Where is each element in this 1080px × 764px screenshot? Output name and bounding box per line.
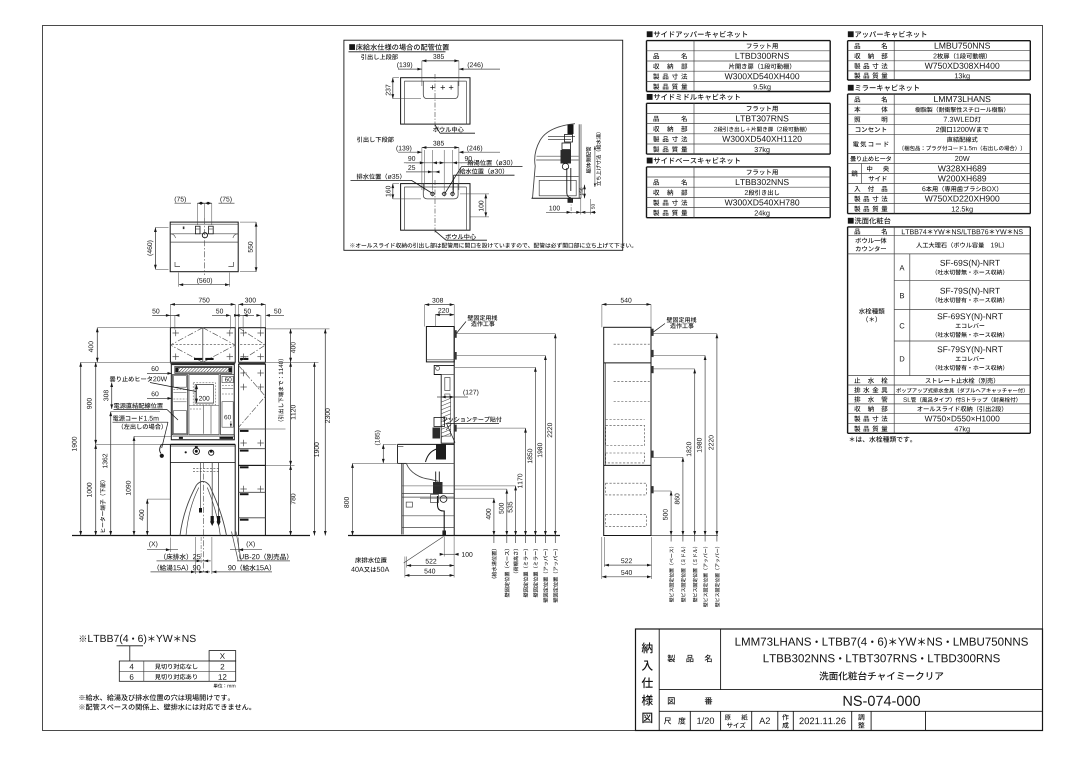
upper plan: counter outline	[401, 78, 470, 124]
section dim: 800 cabinet height	[352, 463, 354, 535]
title block	[636, 629, 1043, 731]
section: drain trap	[435, 472, 437, 483]
front elevation: floor line	[72, 535, 310, 537]
dim 90 90 lower	[406, 162, 462, 164]
side detail: floor line	[532, 197, 582, 199]
front dims: right chain 400/1120/780	[290, 329, 292, 362]
right section vdim 860	[682, 457, 684, 541]
front dims: 60 light bar	[152, 366, 159, 371]
right section label: wall fixing batten	[667, 317, 697, 323]
front dims: (X) left	[149, 541, 157, 547]
label: upper drawer section	[361, 54, 398, 60]
section: bowl underside curve	[407, 464, 439, 481]
plan view: drain circle	[202, 233, 207, 238]
dim 385 upper	[422, 60, 459, 62]
front: sink cabinet outline	[169, 444, 171, 535]
plan dims: (460)	[154, 228, 156, 270]
side detail: dim 100	[546, 211, 584, 213]
plan view: corner braces	[175, 262, 180, 267]
title block: vertical label	[642, 642, 653, 653]
label: lower drawer section	[357, 137, 394, 143]
plan view: counter outline	[170, 222, 238, 272]
front: mirror columns	[172, 375, 187, 435]
label: hot water position	[468, 160, 513, 166]
right section: middle cabinet drawers dashed	[606, 426, 645, 446]
section dim: (185) apron height	[382, 444, 384, 463]
note: model number legend	[80, 634, 196, 644]
label: bowl center upper	[433, 127, 464, 133]
front: mirror right column details	[222, 376, 233, 382]
front dims: top 750/300	[170, 303, 235, 305]
right section: floor extension	[651, 535, 718, 537]
front: mirror bottom rail	[172, 435, 234, 437]
right section vdim 1980	[704, 356, 706, 542]
section: drawers	[402, 492, 454, 494]
front: upper cabinet shelf dashed	[172, 343, 234, 345]
section vdim 535	[515, 486, 517, 543]
section dims: 308/220	[425, 304, 455, 306]
lower plan: sink recess	[423, 184, 458, 199]
front dims: right 2300	[324, 329, 326, 536]
front: mirror center column cubbies	[189, 405, 219, 407]
dim 25	[406, 171, 437, 173]
upper plan: pipe holes	[430, 86, 434, 88]
front: drain pipe curves	[180, 485, 197, 536]
front: mirror cabinet LMM73LHANS outline	[171, 365, 234, 440]
section: floor drain	[442, 531, 446, 536]
upper plan: sink recess	[423, 81, 458, 99]
title block: bottom row	[689, 711, 691, 730]
front: counter top	[170, 443, 235, 445]
right section vdim 500	[670, 491, 672, 542]
side detail: dim 150	[584, 185, 586, 199]
plan view: faucet symbols	[195, 226, 200, 234]
section: base cabinet side	[401, 464, 403, 535]
front dims: 400 lower	[146, 499, 148, 535]
front: side middle cabinet LTBT307RNS	[239, 364, 266, 465]
title block: drawing number	[668, 697, 675, 704]
side detail: counter profile	[533, 124, 576, 199]
note: faucet types	[850, 436, 913, 442]
label: bowl center lower	[445, 234, 476, 240]
right section: shelves dashed	[614, 343, 650, 345]
front dims: water supply 90	[228, 565, 271, 571]
front: upper cabinet door swings	[170, 328, 202, 363]
front dims: (X) right	[247, 541, 255, 547]
piping box title	[349, 44, 449, 51]
lower plan: pipe holes	[431, 192, 434, 195]
front dims: 1362 heater terminal	[110, 412, 112, 536]
note: field drilling	[79, 694, 230, 701]
front: power cord hook	[160, 444, 162, 453]
front dims: right extension lines	[265, 328, 329, 330]
right section: middle cabinet bottom	[604, 464, 651, 466]
table: washstand (senmen keshodai)	[848, 217, 891, 224]
right section vdim 1820	[694, 369, 696, 542]
front: mirror left column details	[173, 376, 186, 388]
section vdim 1170	[525, 428, 527, 543]
dim (139)/(246) upper	[398, 68, 422, 70]
table: ■サイドベースキャビネット	[647, 157, 740, 164]
side detail: dim 50	[590, 199, 592, 215]
right section vdim 2220	[716, 334, 718, 542]
section: upper cabinet	[426, 327, 454, 362]
front: mirror center mirror and 200 dim	[195, 385, 214, 404]
label: power cord 1.5m	[113, 415, 159, 421]
legend underline and pointer	[117, 645, 144, 647]
table: ■アッパーキャビネット	[848, 31, 927, 38]
section: wall bracket marks for mirror/counter	[454, 425, 457, 432]
piping box note	[350, 243, 633, 248]
section label: floor drain position	[355, 557, 387, 563]
plan dims: (560)	[179, 284, 230, 286]
dim 100 (depth)	[485, 194, 487, 217]
front: side upper cabinet LTBD300RNS	[239, 328, 266, 363]
right section: base cabinet drawers dashed	[606, 483, 647, 495]
front: upper cabinet handles	[194, 358, 202, 360]
section label: wall fixing batten	[468, 315, 498, 321]
label: to drawer bottom 1140	[278, 359, 283, 421]
section: wall brackets	[454, 330, 457, 338]
upper plan: center line	[434, 74, 436, 127]
section label: cushion tape	[442, 417, 501, 423]
section: faucet assembly	[436, 445, 446, 460]
front dims: left 1900	[80, 362, 82, 535]
plan view: deck lines	[170, 233, 238, 235]
table: ■サイドミドルキャビネット	[647, 94, 740, 101]
front dims: floor drain 25	[164, 554, 200, 560]
section: mirror hatch panel	[441, 397, 451, 436]
label: anti-fog heater 20W	[110, 376, 167, 382]
label: drain position	[357, 173, 402, 179]
side detail: cabinet lines	[537, 155, 579, 157]
table: ■ミラーキャビネット	[848, 84, 919, 91]
section vdim 500	[506, 489, 508, 543]
front: apron band with faucet	[170, 462, 235, 464]
side detail: drawer box	[539, 180, 576, 195]
section dim: (127)	[463, 389, 478, 395]
front dims: hot water 90	[157, 565, 200, 571]
front dims: left 900/1000	[95, 362, 97, 444]
front: upper cabinet screw crosses	[173, 332, 179, 334]
front dims: 50 offsets	[152, 314, 177, 316]
plan view: center line	[204, 218, 206, 275]
piping position box	[344, 40, 623, 250]
front dims: 1090	[133, 436, 135, 535]
dim 385 lower	[422, 147, 459, 149]
right section: upper cabinet bottom	[604, 362, 651, 364]
title block: product name cell	[667, 655, 675, 663]
front: drawer slot dashed	[193, 468, 219, 470]
right section: outline	[604, 327, 651, 535]
side detail: faucet and trap fittings	[568, 125, 574, 135]
side detail: rotated labels	[586, 147, 591, 174]
section vdim 1850	[534, 367, 536, 543]
plan view: small mark	[183, 227, 185, 230]
dim 237	[392, 78, 394, 99]
front: center line	[203, 463, 205, 573]
section: counter top and apron	[398, 443, 455, 445]
note: wall drain not supported	[79, 704, 251, 711]
front dims: 308	[111, 383, 113, 409]
section vdim 2220	[554, 334, 556, 543]
front: upper cabinet LMBU750NNS	[170, 328, 235, 363]
section dims bottom: 100/522/540	[444, 553, 454, 555]
right section: top dim 540	[602, 303, 651, 305]
front dims: 60 lower rail	[152, 391, 159, 396]
front: mirror light bar	[175, 366, 232, 373]
front dims: right 1900	[313, 362, 315, 535]
table: ■サイドアッパーキャビネット	[647, 31, 747, 38]
dim 160	[392, 184, 394, 199]
front: supply pipes with valves	[211, 463, 213, 522]
legend table	[209, 651, 236, 661]
section: floor line	[348, 535, 560, 537]
label: power direct wiring position	[114, 403, 163, 409]
dim (139)/(246) lower	[398, 151, 422, 153]
section vdim 1980	[544, 356, 546, 544]
front: side base cabinet LTBB302NNS	[239, 465, 266, 535]
side detail: drain pipe	[566, 168, 568, 193]
section vdim 400	[493, 498, 495, 543]
right section dims bottom: 522/540	[604, 564, 651, 566]
plan dims: 550	[255, 222, 257, 272]
side detail: wall lines	[578, 124, 580, 198]
front dims: left 400	[96, 328, 98, 363]
section: wall line	[453, 327, 455, 536]
right section: wall brackets	[651, 329, 654, 336]
label: water supply position	[459, 168, 504, 174]
plan dims: (75)(75)	[175, 196, 186, 202]
section: mirror cabinet side	[434, 365, 454, 443]
lower plan: center line	[434, 180, 436, 233]
label: UB-20 sold separately	[239, 554, 288, 560]
lower plan: counter outline	[401, 184, 470, 231]
